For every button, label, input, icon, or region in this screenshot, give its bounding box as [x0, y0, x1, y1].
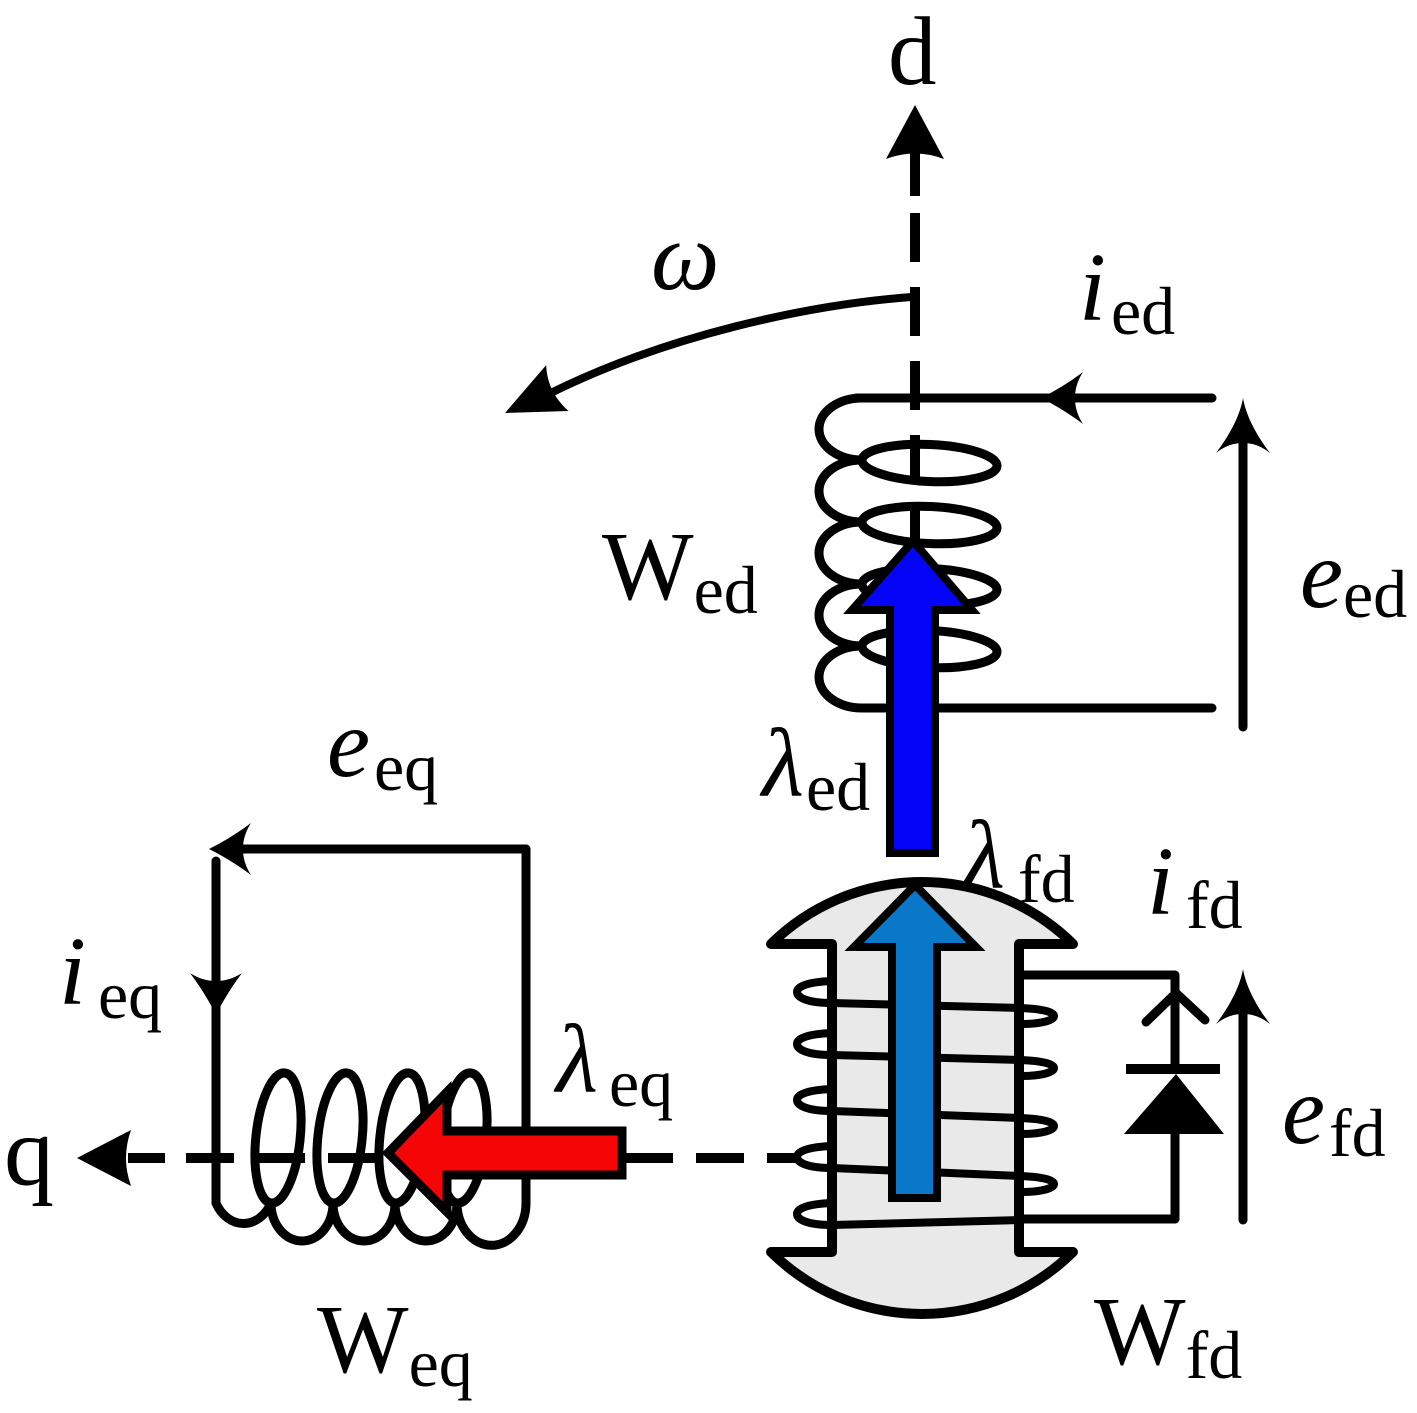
wire (i_ed top wire)	[856, 394, 1212, 403]
svg-text:eq: eq	[374, 729, 438, 805]
coil Wfd (field winding)	[797, 981, 1054, 1024]
svg-text:eq: eq	[98, 957, 162, 1033]
svg-text:d: d	[888, 0, 937, 105]
wire (q-axis dashed line)	[186, 1153, 560, 1163]
svg-text:i: i	[59, 918, 86, 1025]
wire (e_eq loop: right)	[522, 849, 531, 1203]
svg-text:ω: ω	[651, 203, 720, 310]
svg-text:λ: λ	[759, 710, 804, 817]
svg-text:ed: ed	[806, 749, 870, 825]
svg-text:i: i	[1147, 828, 1174, 935]
wire (e_ed bottom wire)	[925, 704, 1212, 713]
wire (diode to bottom)	[1171, 1134, 1180, 1219]
diode D1 triangle	[1124, 1074, 1224, 1134]
svg-text:ed: ed	[1343, 556, 1407, 632]
svg-text:λ: λ	[553, 1006, 598, 1113]
q-axis arrowhead	[77, 1130, 131, 1186]
coil Wed (d-axis stator winding)	[819, 398, 997, 708]
svg-text:e: e	[1300, 521, 1343, 628]
svg-text:ed: ed	[1111, 273, 1175, 349]
svg-text:e: e	[1282, 1057, 1325, 1164]
e_eq arrowhead	[209, 823, 251, 875]
lambda_eq flux arrow	[388, 1092, 622, 1212]
wire (e_eq loop: left and top)	[212, 861, 221, 1203]
i_ed arrowhead	[1041, 372, 1083, 424]
wire (field bottom wire)	[1021, 1215, 1175, 1224]
svg-text:e: e	[327, 690, 370, 797]
svg-text:eq: eq	[609, 1045, 673, 1121]
svg-text:fd: fd	[1018, 841, 1075, 917]
rotor pole piece (Wfd core)	[771, 882, 1073, 1314]
e_ed voltage arrow	[1239, 440, 1248, 727]
wire (q-axis solid stub)	[128, 1153, 165, 1163]
i_fd arrowhead (chevron)	[1146, 993, 1205, 1022]
i_eq arrowhead	[190, 973, 242, 1015]
svg-text:q: q	[4, 1096, 54, 1207]
e_fd voltage arrow	[1239, 1011, 1248, 1220]
coil Weq (q-axis stator winding)	[216, 1073, 526, 1245]
diode D1 cathode bar	[1126, 1064, 1220, 1074]
lambda_ed flux arrow	[852, 541, 972, 853]
d-axis arrowhead	[886, 105, 944, 159]
svg-text:i: i	[1079, 234, 1106, 341]
wire (d-axis dashed line)	[910, 152, 920, 196]
svg-text:λ: λ	[960, 802, 1005, 909]
lambda_fd flux arrow	[854, 885, 976, 1198]
omega arrowhead	[494, 365, 568, 436]
svg-text:fd: fd	[1186, 867, 1243, 943]
wire (omega arc)	[535, 297, 912, 401]
wire (field top wire)	[1021, 975, 1175, 1065]
svg-text:fd: fd	[1329, 1095, 1386, 1171]
